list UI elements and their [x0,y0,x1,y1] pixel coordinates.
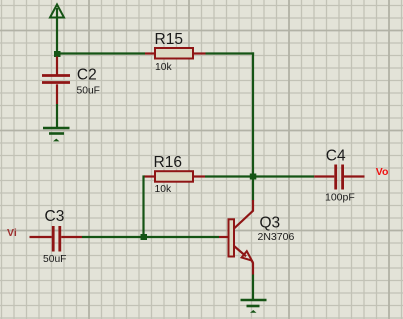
wire: C2 to ground [56,104,58,127]
wire: R16 left corner down to base rail [142,175,144,237]
svg-text:C3: C3 [45,208,65,225]
emitter arrow [242,251,252,260]
wire: node B to C4 [253,175,314,177]
node C junction dot [141,234,148,240]
collector lead [234,200,253,229]
svg-text:2N3706: 2N3706 [258,231,295,243]
svg-text:C4: C4 [326,148,346,165]
svg-text:100pF: 100pF [325,192,355,204]
wire: C3 to base (through node C) [82,236,219,238]
svg-text:Vi: Vi [7,227,17,239]
power symbol VCC arrow [50,5,64,54]
svg-text:R15: R15 [155,31,183,48]
ground under C2 [43,128,70,141]
capacitor C2 [42,57,70,105]
base pin [219,236,229,238]
transistor Q3 [219,200,253,275]
node B junction dot [250,174,256,180]
svg-text:50uF: 50uF [77,86,100,97]
wire: top rail from node A to R15 [57,52,145,54]
node A junction dot [54,51,61,57]
resistor R15 [145,48,206,59]
ground under Q3 [241,300,267,313]
svg-text:50uF: 50uF [43,254,66,265]
svg-text:C2: C2 [77,66,97,83]
wire: main vertical down to collector [252,52,254,200]
svg-text:R16: R16 [154,154,182,171]
capacitor C4 [314,165,364,190]
base bar [229,219,235,256]
wire: emitter to ground [252,275,254,300]
emitter lead [234,246,246,256]
wire: R16 right to node B [205,175,253,177]
svg-text:10k: 10k [155,184,172,195]
wire: R15 to main vertical [206,52,255,54]
resistor R16 [144,171,205,182]
svg-text:Vo: Vo [376,166,389,178]
capacitor C3 [30,226,83,252]
svg-text:10k: 10k [155,62,172,73]
svg-text:Q3: Q3 [260,215,281,232]
